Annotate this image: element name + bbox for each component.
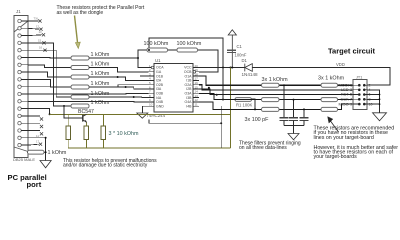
wire: VCC to R1 — [223, 68, 235, 100]
wire: VCC rail — [199, 67, 245, 69]
annotation: top note text — [57, 5, 145, 16]
svg-text:15: 15 — [38, 38, 42, 42]
resistor 1 kOhm row 1 — [71, 52, 110, 60]
svg-text:100 kOhm: 100 kOhm — [144, 41, 169, 47]
svg-text:1 kOhm: 1 kOhm — [48, 150, 67, 156]
svg-text:port: port — [27, 180, 42, 189]
wire: olive vertical to VCC — [230, 68, 232, 148]
resistor 1 kOhm target row y=99.6 — [262, 98, 280, 102]
svg-text:1 kOhm: 1 kOhm — [91, 62, 110, 68]
svg-text:10: 10 — [149, 103, 153, 107]
annotation arrow (olive) pointing to 1k resistors — [75, 16, 81, 49]
svg-text:1 kOhm: 1 kOhm — [91, 100, 110, 106]
JT1 right pin numbers — [369, 83, 373, 106]
svg-text:J1: J1 — [16, 9, 21, 14]
resistor 1 kOhm (static protection) — [28, 150, 67, 156]
resistor 1 kOhm row 5 — [71, 91, 110, 99]
wire: U1 GND pin to ground — [142, 106, 148, 113]
svg-text:lines on your target-board: lines on your target-board — [314, 135, 374, 141]
wire: VDD rail to target — [252, 68, 390, 86]
svg-text:R1 100K: R1 100K — [236, 102, 253, 107]
svg-text:13: 13 — [39, 30, 43, 34]
svg-text:2: 2 — [369, 83, 371, 87]
op-amp/buffer U1 74HC244 box — [154, 64, 193, 113]
J1 pin stubs — [21, 21, 28, 145]
wire: gnd return L — [149, 106, 221, 148]
ground symbol (U1) — [137, 113, 148, 118]
U1 pin stubs and labels — [149, 68, 200, 107]
svg-text:11: 11 — [195, 103, 198, 107]
resistor 1 kOhm target row y=85.2 — [262, 83, 280, 87]
wire: resistor to ground — [44, 151, 46, 153]
svg-text:11: 11 — [36, 134, 39, 138]
ground symbol (bottom-left) — [40, 161, 51, 168]
svg-text:17: 17 — [36, 140, 40, 144]
svg-text:JT1: JT1 — [356, 75, 362, 79]
wire: U1 outputs staircase to target rows — [199, 76, 353, 109]
capacitor 100 pF #1 — [279, 85, 288, 125]
JT1 pin dots — [358, 84, 366, 106]
svg-text:1 kOhm: 1 kOhm — [91, 91, 110, 97]
wire: caps common ground — [284, 126, 304, 134]
svg-text:D1: D1 — [242, 58, 248, 63]
junction dots — [45, 49, 234, 153]
junction dots on gnd drop — [379, 94, 381, 105]
resistor 1 kOhm row 2 — [71, 62, 110, 70]
svg-text:Target circuit: Target circuit — [328, 46, 375, 55]
resistor 1 kOhm row 6 — [71, 100, 110, 108]
ground symbol (target) — [373, 113, 387, 121]
power symbol VCC arrow — [228, 30, 236, 68]
svg-text:GND: GND — [156, 104, 164, 108]
wire: collector line (olive) — [50, 113, 231, 115]
resistor 1 kOhm target right row y=85.2 — [321, 83, 338, 87]
svg-text:U1: U1 — [155, 58, 161, 63]
wire: data-line jogs from J1 to series resistors — [28, 43, 71, 106]
svg-text:1 kOhm: 1 kOhm — [91, 52, 110, 58]
connector J1 DB25 — [14, 16, 28, 158]
capacitor 100 pF #3 — [299, 109, 308, 125]
resistor 10 kOhm #1 — [66, 114, 70, 148]
svg-text:C1: C1 — [237, 44, 243, 49]
svg-text:3 * 10 kOhm: 3 * 10 kOhm — [109, 131, 139, 137]
svg-text:DB25 MALE: DB25 MALE — [13, 157, 35, 162]
stubs to X marks — [28, 21, 46, 161]
svg-text:TXL: TXL — [34, 17, 40, 21]
pin 19 inversion bubble — [193, 71, 196, 74]
svg-text:12: 12 — [36, 25, 40, 29]
wire: status lines from U1 outputs to J1 — [28, 76, 149, 102]
svg-text:100 kOhm: 100 kOhm — [177, 41, 202, 47]
connector JT1 box — [353, 80, 367, 110]
J1 pin circles — [18, 19, 21, 147]
resistor 1 kOhm row 4 — [71, 81, 110, 89]
svg-text:3x 100 pF: 3x 100 pF — [245, 117, 270, 123]
svg-text:and/or damage due to static el: and/or damage due to static electricity — [63, 163, 148, 169]
svg-text:1N4148: 1N4148 — [242, 72, 259, 77]
wire: JT1 ground pins — [367, 90, 380, 113]
svg-text:VDD: VDD — [336, 62, 345, 67]
diode D1 1N4148 — [245, 64, 253, 72]
svg-text:BC547: BC547 — [78, 109, 94, 115]
JT1 inner stubs — [353, 85, 370, 104]
svg-text:MISO: MISO — [338, 101, 348, 106]
annotation arrow to right resistor group — [328, 117, 339, 132]
pin 1 inversion bubble — [151, 66, 154, 69]
junction dots on data rows — [254, 84, 305, 110]
wire: J1 pin13 to transistor collector line — [28, 109, 50, 115]
svg-text:100nF: 100nF — [235, 53, 247, 58]
wire: 100k chain — [138, 38, 223, 72]
resistor 1 kOhm target row y=109.4 — [262, 107, 280, 111]
resistor 1 kOhm target right row y=99.6 — [321, 98, 338, 102]
svg-text:on all three data-lines: on all three data-lines — [239, 145, 287, 151]
resistor R1 100K — [235, 98, 253, 108]
resistor 100 kOhm (right) — [177, 41, 202, 52]
tiny pin number specks — [34, 17, 43, 144]
svg-text:I4B: I4B — [186, 104, 192, 108]
svg-text:3x 1 kOhm: 3x 1 kOhm — [318, 76, 345, 82]
wire: pull-down rail (olive) — [68, 147, 230, 149]
svg-text:as well as the dongle: as well as the dongle — [57, 10, 104, 16]
JT1 left pin labels — [338, 82, 353, 106]
annotation: recommended resistors note — [314, 126, 399, 160]
capacitor C1 — [227, 50, 236, 52]
svg-text:3x 1 kOhm: 3x 1 kOhm — [262, 77, 289, 83]
resistor 1 kOhm row 3 — [71, 71, 110, 79]
ground symbol (filters) — [288, 134, 299, 140]
resistor 10 kOhm #2 — [84, 126, 88, 148]
wire: base lead — [64, 106, 83, 118]
svg-text:16: 16 — [39, 46, 43, 50]
transistor Q1 BC547 — [83, 114, 87, 126]
capacitor 100 pF #2 — [289, 100, 298, 126]
svg-text:1 kOhm: 1 kOhm — [91, 71, 110, 77]
wire: R1 to MISO line — [252, 99, 256, 109]
no-connect X marks — [38, 19, 46, 145]
wire: resistor rows to U1 input pins — [89, 58, 149, 98]
resistor 100 kOhm (left) — [144, 41, 169, 52]
annotation: filter note — [239, 140, 301, 151]
svg-text:1 kOhm: 1 kOhm — [91, 81, 110, 87]
resistor 10 kOhm #3 — [101, 114, 105, 148]
wire: J1 shield to resistor — [27, 151, 30, 153]
svg-text:your target-boards: your target-boards — [314, 154, 358, 160]
resistor 1 kOhm target right row y=109.4 — [321, 107, 338, 111]
annotation: static electricity note — [63, 158, 157, 169]
